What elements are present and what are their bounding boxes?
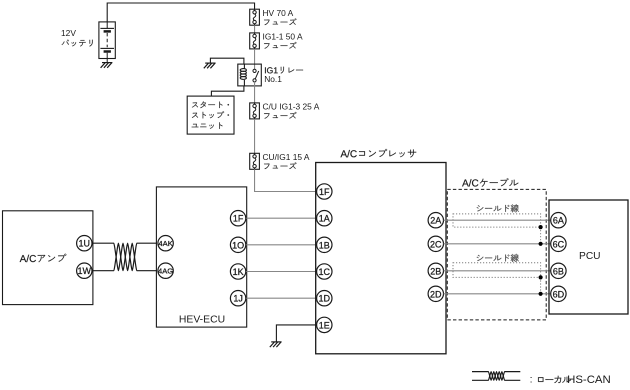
connector pin PCU 6B xyxy=(551,263,566,278)
label F3 line2 xyxy=(264,112,296,119)
shield 2 dotted enclosure xyxy=(453,263,541,294)
svg-text:1E: 1E xyxy=(319,320,330,330)
svg-text:IG1-1 50 A: IG1-1 50 A xyxy=(263,32,303,42)
svg-text:2C: 2C xyxy=(430,239,442,249)
svg-text:CU/IG1 15 A: CU/IG1 15 A xyxy=(263,152,310,162)
svg-text:6D: 6D xyxy=(553,289,565,299)
connector pin HEV 1O xyxy=(230,237,245,252)
wire comp 1E to ground xyxy=(276,325,316,342)
svg-text:1C: 1C xyxy=(319,267,331,277)
junction dot shield 2 corner xyxy=(539,275,543,279)
svg-text:6A: 6A xyxy=(553,216,564,226)
battery cells xyxy=(100,22,114,63)
svg-text:HS-CAN: HS-CAN xyxy=(567,374,611,386)
svg-text:6C: 6C xyxy=(553,239,565,249)
svg-text:1A: 1A xyxy=(319,214,330,224)
label shield wire 2 xyxy=(477,254,519,262)
svg-text:PCU: PCU xyxy=(579,251,601,262)
svg-text:HEV-ECU: HEV-ECU xyxy=(179,314,225,325)
connector pin comp 2B xyxy=(428,263,443,278)
ground relay coil xyxy=(204,63,216,68)
label legend local katakana xyxy=(538,376,571,383)
start-stop unit box xyxy=(187,96,234,134)
connector pin PCU 6D xyxy=(551,286,566,301)
wire bus F1 to F2 xyxy=(254,25,256,33)
wire bus F2 to relay switch xyxy=(254,49,256,70)
label battery name xyxy=(62,40,93,47)
connector pin comp 1B xyxy=(317,237,332,252)
wire relay coil to ground xyxy=(210,58,244,64)
svg-text:1K: 1K xyxy=(233,267,244,277)
wire comp 2C to PCU 6C xyxy=(444,243,551,245)
svg-text:4AK: 4AK xyxy=(158,239,172,248)
label relay line1 xyxy=(265,67,303,74)
A/C compressor box xyxy=(316,163,446,354)
junction dot shield 2 on 6D wire xyxy=(539,292,543,296)
svg-text:2D: 2D xyxy=(430,289,442,299)
connector pin comp 1F xyxy=(317,184,332,199)
wire bus relay to F3 xyxy=(254,82,256,103)
relay coil xyxy=(240,64,246,86)
junction dot shield 1 on 6C wire xyxy=(539,242,543,246)
svg-text::: : xyxy=(530,374,533,386)
wire twisted pair line 2 (1W side) xyxy=(93,243,157,271)
connector pin comp 1A xyxy=(317,211,332,226)
connector pin PCU 6A xyxy=(551,213,566,228)
wire relay coil to start-stop unit xyxy=(211,86,244,96)
svg-text:12V: 12V xyxy=(61,28,76,38)
wire comp 2D to PCU 6D xyxy=(444,293,551,295)
label A/C cable name xyxy=(462,178,518,187)
wire comp 2A to PCU 6A xyxy=(444,219,551,221)
connector pin PCU 6C xyxy=(551,236,566,251)
wire HEV 1F to comp 1A xyxy=(246,217,316,219)
battery 12V box xyxy=(99,22,115,59)
A/C amplifier box xyxy=(3,211,93,305)
wire HEV 1K to comp 1C xyxy=(246,271,316,273)
relay K1 IG1 No.1 box xyxy=(238,64,261,86)
fuse F4 CU/IG1 15 A box xyxy=(250,153,260,169)
svg-text:C/U IG1-3 25 A: C/U IG1-3 25 A xyxy=(263,102,320,112)
connector pin comp 2C xyxy=(428,236,443,251)
ground battery xyxy=(101,63,113,68)
junction dot shield 1 corner xyxy=(539,225,543,229)
connector pin HEV 1K xyxy=(230,264,245,279)
wire twisted pair line 1 (1U side) xyxy=(93,243,157,271)
svg-text:1B: 1B xyxy=(319,240,330,250)
connector pin HEV 1F xyxy=(230,211,245,226)
wire HEV 1J to comp 1D xyxy=(246,297,316,299)
wire battery positive to fuse bus xyxy=(107,3,254,22)
svg-text:4AG: 4AG xyxy=(158,267,173,276)
svg-text:1U: 1U xyxy=(79,239,91,249)
svg-text:1W: 1W xyxy=(78,266,92,276)
svg-text:HV 70 A: HV 70 A xyxy=(263,8,294,18)
connector pin comp 2D xyxy=(428,286,443,301)
fuse F3 C/U IG1-3 25 A box xyxy=(250,103,260,119)
connector pin 4AG xyxy=(158,263,173,278)
label F2 line2 xyxy=(264,42,296,49)
fuse F2 IG1-1 50 A box xyxy=(250,33,260,49)
legend twisted-pair symbol line 2 xyxy=(472,372,520,381)
legend twisted-pair symbol line 1 xyxy=(472,372,520,381)
relay switch contacts xyxy=(253,69,259,82)
label start-stop line3 xyxy=(192,122,223,128)
svg-text:No.1: No.1 xyxy=(264,74,282,84)
svg-text:1J: 1J xyxy=(233,294,243,304)
svg-text:1D: 1D xyxy=(319,294,331,304)
svg-text:1O: 1O xyxy=(232,240,244,250)
label F1 line2 xyxy=(264,18,296,25)
svg-text:2A: 2A xyxy=(430,216,441,226)
shield 1 dotted enclosure xyxy=(453,214,541,244)
fuse F1 HV 70 A box xyxy=(250,9,260,25)
svg-text:1F: 1F xyxy=(319,187,330,197)
wire bus F3 to F4 xyxy=(254,119,256,153)
wire bus F4 to compressor pin 1F xyxy=(255,169,317,191)
PCU box xyxy=(549,200,628,314)
A/C cable shielded harness dashed outline xyxy=(447,189,546,320)
wire HEV 1O to comp 1B xyxy=(246,244,316,246)
ground comp 1E xyxy=(270,342,282,347)
label start-stop line1 xyxy=(192,101,229,108)
connector pin HEV 1J xyxy=(230,291,245,306)
label A/C amp name xyxy=(20,254,67,262)
connector pin comp 2A xyxy=(428,213,443,228)
svg-text:2B: 2B xyxy=(430,266,441,276)
connector pin comp 1D xyxy=(317,291,332,306)
connector pin comp 1E xyxy=(317,317,332,332)
connector pin comp 1C xyxy=(317,264,332,279)
svg-text:1F: 1F xyxy=(233,214,244,224)
connector pin 1W xyxy=(77,263,92,278)
label A/C compressor name xyxy=(340,149,416,158)
wire comp 2B to PCU 6B xyxy=(444,270,551,272)
label start-stop line2 xyxy=(192,111,229,118)
label F4 line2 xyxy=(264,162,296,169)
connector pin 1U xyxy=(77,236,92,251)
HEV-ECU box xyxy=(156,187,246,327)
label shield wire 1 xyxy=(477,204,519,212)
svg-text:6B: 6B xyxy=(553,266,564,276)
connector pin 4AK xyxy=(158,236,173,251)
